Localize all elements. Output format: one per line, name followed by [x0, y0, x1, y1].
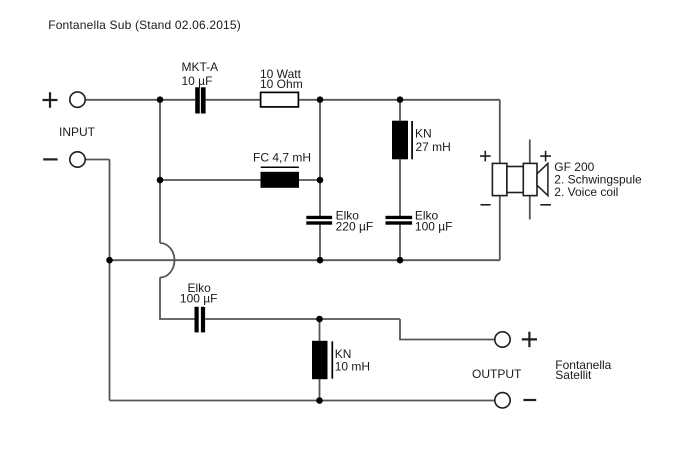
wire step down to output plus [400, 319, 495, 340]
terminal output plus circle [495, 332, 510, 347]
speaker GF 200 magnet rect [507, 167, 523, 193]
svg-text:INPUT: INPUT [59, 125, 96, 139]
svg-text:FC 4,7 mH: FC 4,7 mH [253, 151, 311, 165]
inductor KN 27 mH core line [411, 121, 413, 159]
terminal output minus circle [495, 393, 510, 408]
wire capacitor MKT-A to resistor [206, 99, 261, 101]
inductor FC 4,7 mH body [261, 172, 300, 188]
svg-text:OUTPUT: OUTPUT [472, 367, 522, 381]
terminal input minus circle [70, 152, 85, 167]
wire right vertical to speaker plus [499, 100, 501, 260]
speaker minus sign left [481, 204, 491, 206]
svg-text:27 mH: 27 mH [416, 140, 451, 154]
input plus sign [43, 92, 58, 108]
wire inductor KN 27 to capacitor Elko 100 [399, 159, 401, 216]
capacitor Elko 100 uF lower plates [195, 307, 206, 333]
svg-text:10 mH: 10 mH [335, 360, 370, 374]
node A top junction [157, 96, 164, 103]
speaker minus sign right [540, 204, 551, 206]
inductor FC 4,7 mH core line [261, 166, 299, 168]
inductor KN 10 mH body [312, 341, 328, 379]
wire bottom rail to output minus [110, 400, 495, 402]
wire inductor KN 10 to bottom rail [319, 379, 321, 400]
svg-text:100 µF: 100 µF [415, 220, 453, 234]
inductor KN 10 mH core line [331, 341, 333, 378]
wire resistor to top-right corner [299, 99, 500, 101]
node B mid junction [317, 177, 324, 184]
svg-text:Satellit: Satellit [555, 368, 592, 382]
node B top junction [317, 96, 324, 103]
input minus sign [43, 158, 57, 160]
node C lower junction [397, 257, 404, 264]
node C top junction [397, 96, 404, 103]
wire capacitor Elko 100 to mid rail [399, 225, 401, 260]
speaker plus sign right [540, 151, 551, 162]
wire speaker second voice coil [529, 140, 531, 220]
wire node D to inductor KN 10 [319, 319, 321, 341]
wire mid rail [110, 259, 500, 261]
wire input plus to node A [85, 99, 195, 101]
svg-text:220 µF: 220 µF [336, 220, 374, 234]
svg-text:KN: KN [415, 127, 432, 141]
wire hop over mid rail [160, 243, 174, 278]
resistor 10 Watt 10 Ohm body [261, 92, 299, 107]
wire node A down to hop [159, 100, 161, 243]
wire capacitor Elko bottom to step corner [205, 318, 400, 320]
svg-text:10 Ohm: 10 Ohm [260, 77, 303, 91]
wire hop to corner at lower rail [160, 278, 195, 320]
svg-text:Fontanella Sub (Stand 02.06.20: Fontanella Sub (Stand 02.06.2015) [48, 18, 241, 32]
svg-text:MKT-A: MKT-A [182, 60, 219, 74]
output minus sign [523, 399, 536, 401]
node minus rail junction [106, 257, 113, 264]
wire input minus stub [85, 159, 109, 161]
wire node B vertical upper [319, 100, 321, 216]
node B lower junction [317, 257, 324, 264]
wire node C to inductor KN 27 [399, 100, 401, 121]
svg-text:100 µF: 100 µF [180, 291, 218, 305]
capacitor Elko 220 uF plates [306, 216, 332, 225]
capacitor Elko 100 uF upper plates [386, 216, 413, 225]
node E bottom junction [316, 397, 323, 404]
speaker GF 200 left voice coil rect [492, 163, 507, 195]
inductor KN 27 mH body [392, 121, 408, 160]
speaker GF 200 right voice coil rect [523, 163, 537, 195]
svg-text:10 µF: 10 µF [182, 74, 213, 88]
output plus sign [522, 332, 537, 347]
node A mid junction [157, 177, 164, 184]
svg-text:2. Voice coil: 2. Voice coil [554, 185, 618, 199]
wire left vertical minus rail [109, 160, 111, 401]
wire inductor FC to node B [299, 179, 320, 181]
terminal input plus circle [70, 92, 85, 107]
capacitor MKT-A 10 uF plates [195, 87, 205, 113]
wire capacitor Elko 220 to mid rail [319, 225, 321, 260]
wire node A to inductor FC [160, 179, 261, 181]
node D junction [316, 316, 323, 323]
speaker GF 200 cone [537, 163, 548, 195]
speaker plus sign left [480, 151, 491, 162]
